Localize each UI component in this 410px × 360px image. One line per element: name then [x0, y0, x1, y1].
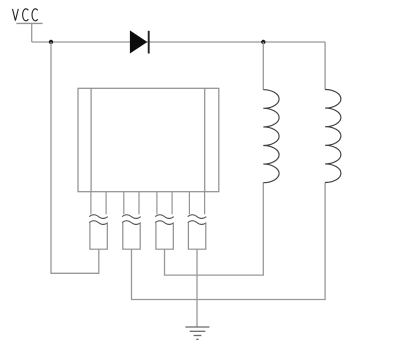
wire top rail corner to inductor L2 top [324, 42, 326, 90]
pin 1 leads [91, 192, 106, 215]
IC U1 body outline [78, 88, 219, 191]
diode D1 cathode bar [148, 31, 150, 54]
diode D1 anode triangle [130, 30, 147, 53]
wire node B to inductor L1 top [262, 42, 264, 90]
pin 2 break mark lower [122, 221, 141, 225]
wire VCC stem [31, 23, 33, 42]
pin 2 leads [124, 192, 139, 215]
pin 3 break mark lower [155, 221, 174, 225]
node junction B [261, 40, 265, 44]
pin 4 lower box [188, 223, 205, 249]
net label VCC [13, 9, 38, 21]
wire left rail from node A to pin 1 [51, 42, 99, 273]
pin 1 lower box [90, 223, 107, 249]
pin 3 lower box [156, 223, 173, 249]
pin 1 break mark lower [89, 221, 108, 225]
ground symbol [185, 327, 209, 339]
pin 4 break mark upper [188, 215, 207, 219]
inductor L1 coil [263, 90, 279, 183]
wire top rail [32, 41, 325, 43]
pin 3 leads [157, 192, 172, 215]
pin 1 break mark upper [89, 215, 108, 219]
node junction A [49, 40, 53, 44]
pin 2 break mark upper [122, 215, 141, 219]
wire pin 3 to transformer primary bottom [165, 183, 264, 275]
inductor L2 coil [325, 90, 341, 183]
pin 3 break mark upper [155, 215, 174, 219]
pin 2 lower box [123, 223, 140, 249]
wire pin 2 to transformer secondary bottom [132, 183, 326, 300]
pin 4 break mark lower [188, 221, 207, 225]
pin 4 leads [189, 192, 204, 215]
IC U1 inner left line [90, 88, 92, 191]
IC U1 inner right line [204, 88, 206, 191]
wire pin 4 to ground [196, 249, 198, 327]
power symbol VCC bar [16, 22, 42, 24]
